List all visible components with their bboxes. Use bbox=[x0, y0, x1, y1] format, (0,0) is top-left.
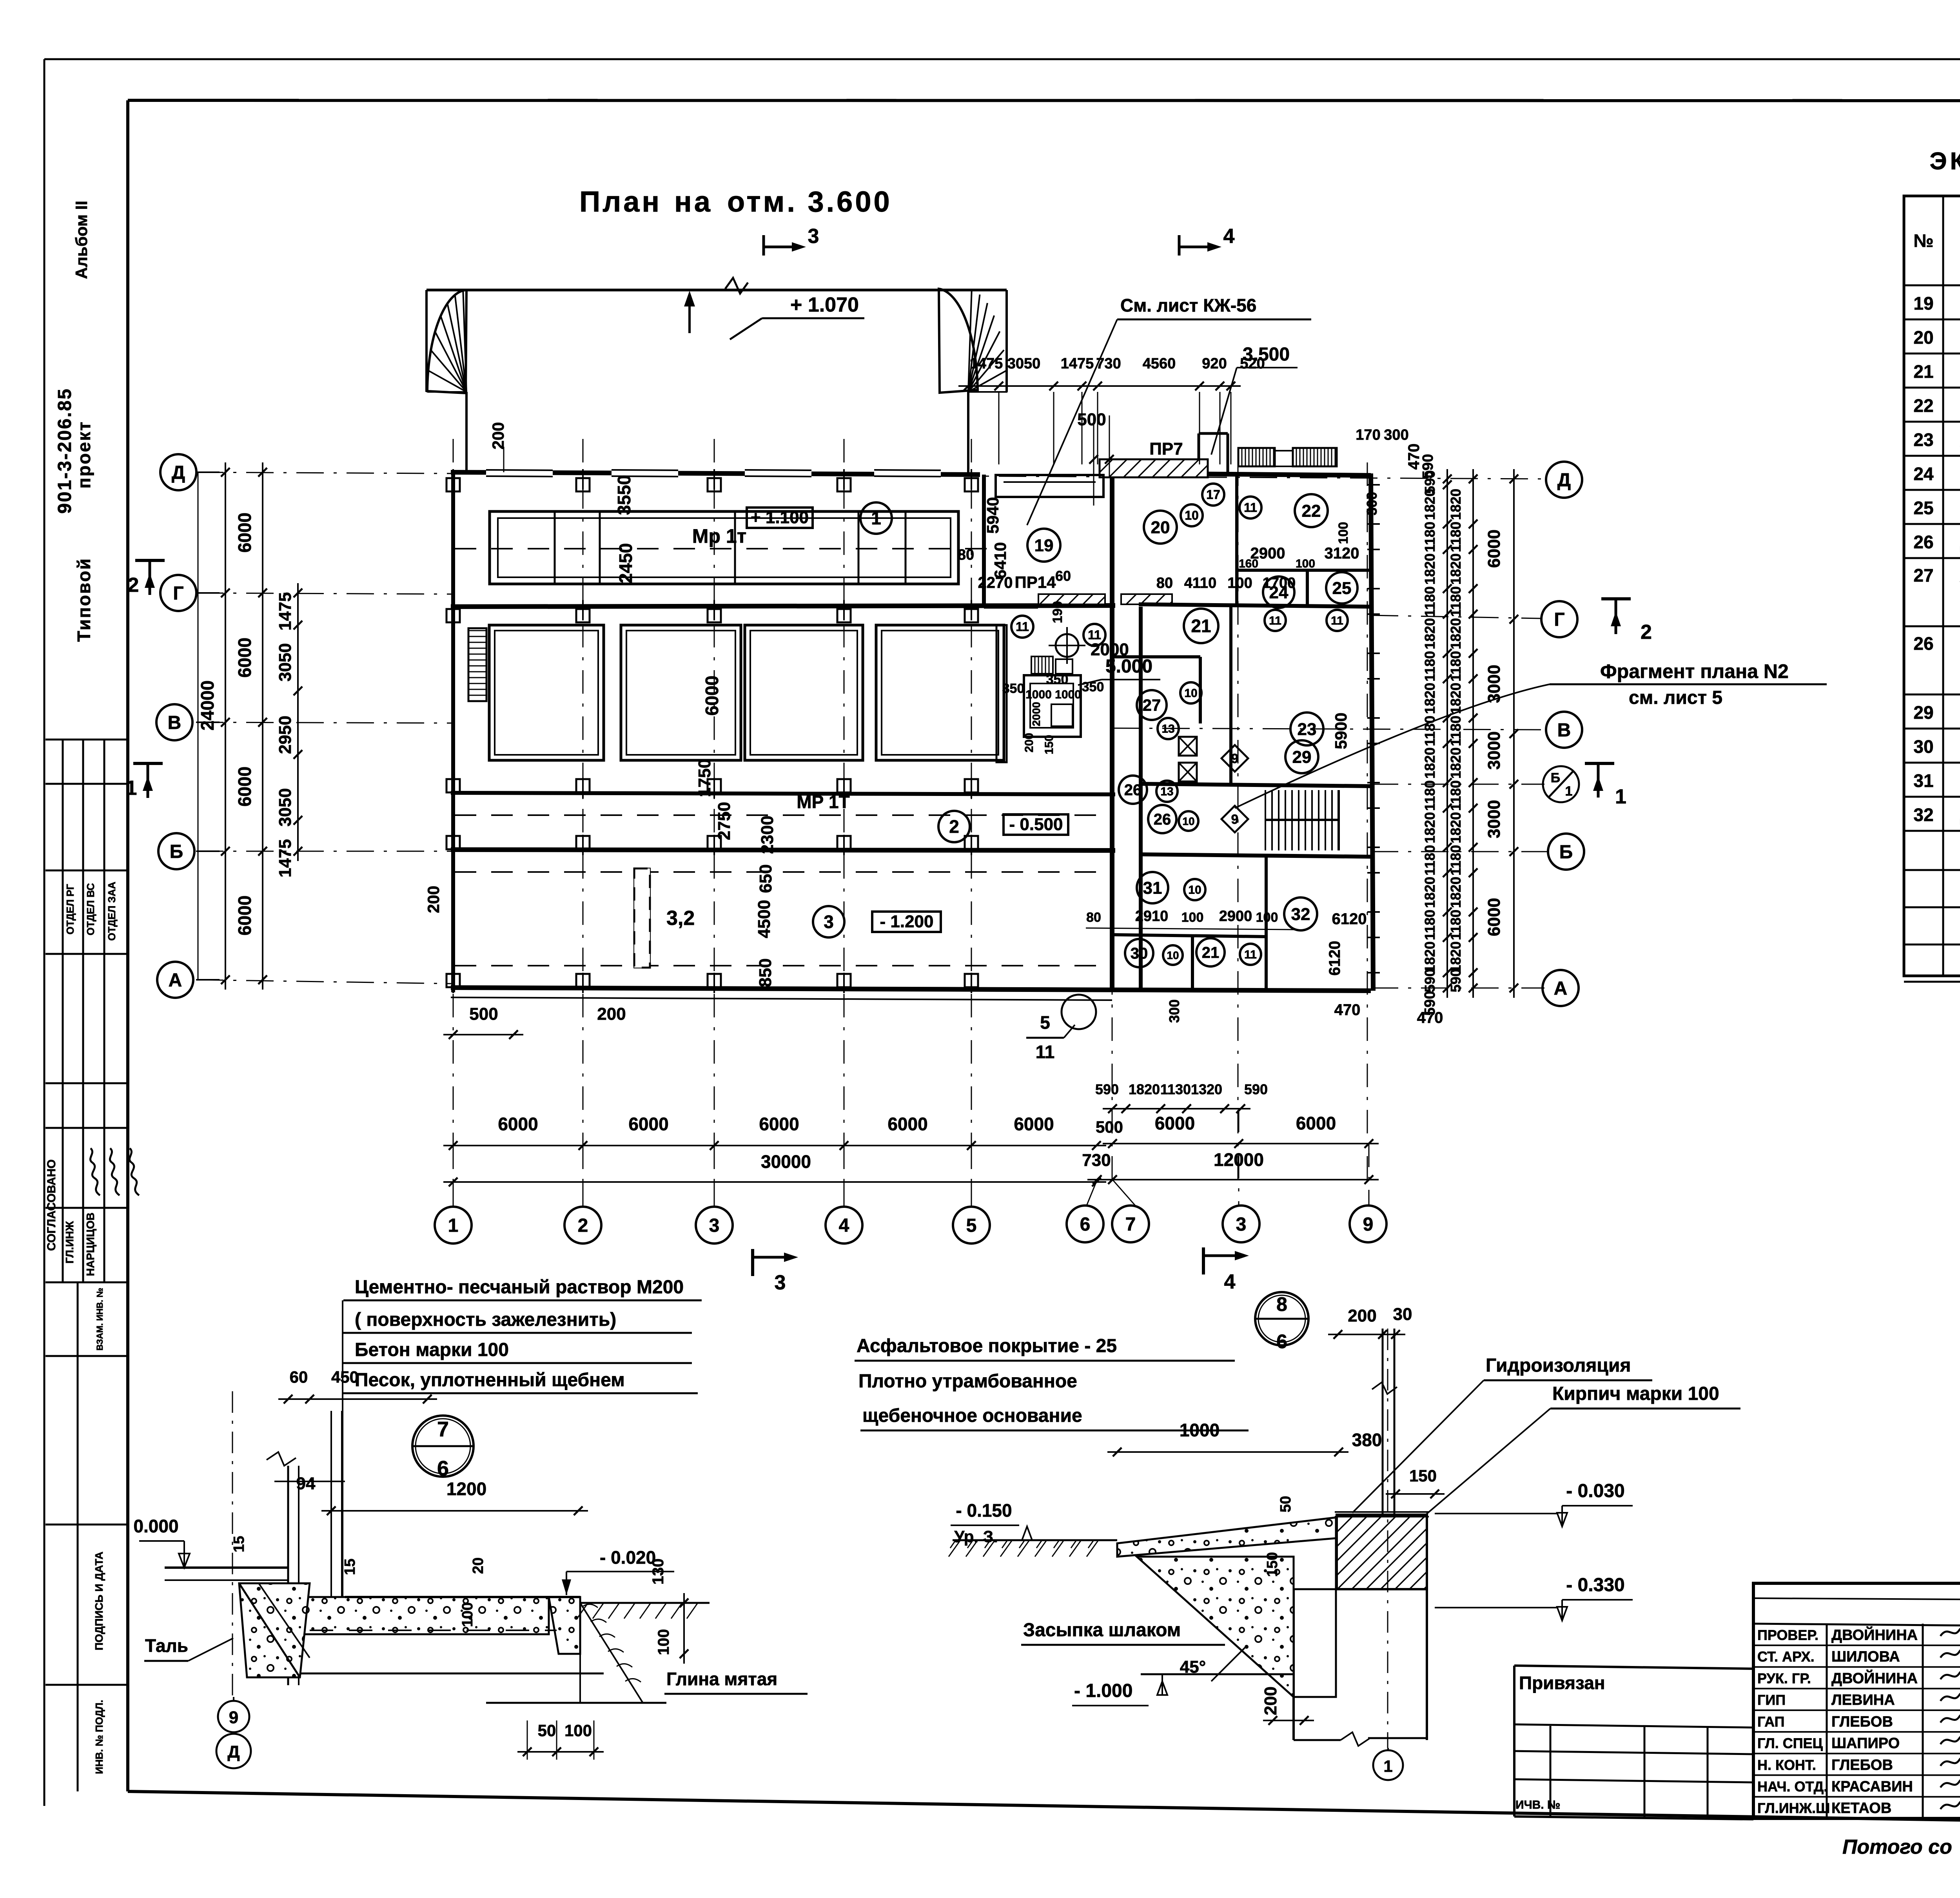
svg-text:1475: 1475 bbox=[1061, 355, 1094, 372]
svg-text:80: 80 bbox=[958, 547, 974, 563]
svg-text:24000: 24000 bbox=[197, 680, 218, 731]
svg-text:2300: 2300 bbox=[758, 816, 777, 854]
svg-text:160: 160 bbox=[1239, 557, 1258, 570]
svg-text:1180: 1180 bbox=[1422, 845, 1438, 876]
svg-text:1180: 1180 bbox=[1448, 910, 1464, 940]
equipment square bbox=[1024, 675, 1081, 737]
svg-text:1: 1 bbox=[1565, 784, 1573, 799]
svg-text:350: 350 bbox=[1046, 672, 1069, 687]
svg-text:11: 11 bbox=[1331, 615, 1343, 627]
svg-text:6000: 6000 bbox=[1155, 1113, 1195, 1133]
svg-text:20: 20 bbox=[1151, 518, 1170, 537]
detail 7 slab with concrete bbox=[298, 1597, 549, 1634]
equipment comb bbox=[1031, 656, 1053, 674]
explication table frame bbox=[1904, 196, 1960, 976]
svg-text:9: 9 bbox=[1231, 751, 1239, 766]
wall row B hall bbox=[451, 850, 1115, 850]
svg-text:520: 520 bbox=[1240, 355, 1265, 372]
svg-text:ЛЕВИНА: ЛЕВИНА bbox=[1831, 1692, 1895, 1708]
svg-text:2: 2 bbox=[128, 574, 139, 596]
svg-text:- 0.500: - 0.500 bbox=[1009, 815, 1063, 834]
svg-text:920: 920 bbox=[1202, 355, 1227, 372]
duct along hall right bbox=[996, 625, 1007, 762]
upper monorail equipment band bbox=[490, 511, 958, 584]
svg-text:ВЗАМ. ИНВ. №: ВЗАМ. ИНВ. № bbox=[95, 1288, 105, 1351]
svg-text:1820: 1820 bbox=[1422, 489, 1438, 520]
svg-text:5.000: 5.000 bbox=[1105, 656, 1152, 677]
svg-text:1180: 1180 bbox=[1448, 522, 1464, 552]
corridor south wall annex right part bbox=[1139, 604, 1371, 607]
svg-text:7: 7 bbox=[1125, 1214, 1136, 1235]
wall between 24 25 bbox=[1306, 570, 1309, 607]
bottom axis circles 1-5 bbox=[435, 1207, 472, 1244]
svg-text:6: 6 bbox=[1276, 1331, 1287, 1352]
svg-text:30: 30 bbox=[1913, 736, 1933, 757]
brick pier hatched bbox=[1337, 1515, 1427, 1589]
svg-text:ГЛЕБОВ: ГЛЕБОВ bbox=[1831, 1713, 1893, 1730]
svg-text:20: 20 bbox=[470, 1557, 486, 1574]
svg-text:500: 500 bbox=[469, 1004, 498, 1024]
detail 7 wall verticals bbox=[330, 1411, 332, 1597]
svg-text:3: 3 bbox=[808, 225, 819, 248]
bottom axis circles 6-9 bbox=[1067, 1206, 1103, 1242]
elevation box -1.200 bbox=[872, 912, 941, 932]
svg-text:НАРЦИЦОВ: НАРЦИЦОВ bbox=[84, 1213, 96, 1276]
room 27 box bbox=[1114, 655, 1200, 658]
svg-text:Г: Г bbox=[173, 583, 183, 604]
monorail dashed line lower МР 1Т bbox=[455, 814, 1109, 816]
svg-text:80: 80 bbox=[1086, 910, 1101, 925]
svg-text:ГЛ. СПЕЦ: ГЛ. СПЕЦ bbox=[1757, 1735, 1823, 1751]
svg-text:300: 300 bbox=[1166, 999, 1182, 1023]
svg-text:ЭКСПЛИКАЦИЯ ПОМЕЩЕНИЙ: ЭКСПЛИКАЦИЯ ПОМЕЩЕНИЙ bbox=[1929, 147, 1960, 175]
svg-text:КЕТАОВ: КЕТАОВ bbox=[1831, 1800, 1891, 1816]
detail 7 floor slab lines bbox=[165, 1566, 288, 1569]
svg-text:1180: 1180 bbox=[1448, 780, 1464, 811]
svg-text:2: 2 bbox=[1641, 621, 1652, 644]
room circle 1 bbox=[860, 502, 892, 534]
svg-text:200: 200 bbox=[1261, 1686, 1280, 1715]
svg-text:Бетон марки 100: Бетон марки 100 bbox=[355, 1340, 509, 1360]
svg-text:Д: Д bbox=[172, 462, 185, 483]
svg-text:4110: 4110 bbox=[1184, 575, 1216, 591]
svg-text:22: 22 bbox=[1302, 501, 1321, 520]
svg-text:11: 11 bbox=[1088, 628, 1101, 642]
svg-text:31: 31 bbox=[1913, 770, 1933, 791]
svg-text:Глина мятая: Глина мятая bbox=[666, 1669, 777, 1689]
svg-text:3: 3 bbox=[775, 1271, 786, 1294]
svg-text:590: 590 bbox=[1095, 1081, 1119, 1097]
svg-text:4: 4 bbox=[1223, 225, 1235, 248]
section marker 2 left bbox=[135, 559, 165, 562]
svg-text:3,2: 3,2 bbox=[666, 907, 695, 930]
svg-text:3050: 3050 bbox=[276, 643, 295, 682]
wall above stairs bbox=[1141, 784, 1371, 786]
four tank rooms bbox=[489, 625, 604, 760]
svg-text:26: 26 bbox=[1913, 633, 1933, 654]
svg-text:РУК. ГР.: РУК. ГР. bbox=[1757, 1670, 1811, 1686]
svg-text:1000: 1000 bbox=[1180, 1420, 1220, 1440]
svg-text:590: 590 bbox=[1422, 969, 1438, 992]
section marker 2 right bbox=[1601, 597, 1631, 600]
svg-text:590: 590 bbox=[1244, 1081, 1268, 1097]
svg-text:ПР14: ПР14 bbox=[1015, 573, 1056, 591]
svg-text:17: 17 bbox=[1206, 488, 1220, 502]
svg-text:27: 27 bbox=[1143, 696, 1161, 714]
svg-text:Д: Д bbox=[1557, 470, 1571, 491]
svg-text:9: 9 bbox=[229, 1708, 238, 1727]
left strip lower cells bbox=[45, 1355, 128, 1357]
room 19 left wall bbox=[982, 475, 986, 607]
shlak fill triangle bbox=[1137, 1557, 1294, 1697]
svg-text:13: 13 bbox=[1160, 785, 1173, 798]
svg-text:Фрагмент плана N2: Фрагмент плана N2 bbox=[1600, 660, 1789, 682]
room circles annex bbox=[1027, 529, 1060, 562]
svg-text:150: 150 bbox=[1043, 735, 1056, 754]
svg-text:23: 23 bbox=[1913, 430, 1933, 450]
svg-text:23: 23 bbox=[1298, 720, 1317, 739]
svg-text:150: 150 bbox=[1264, 1552, 1281, 1577]
svg-text:4560: 4560 bbox=[1143, 355, 1176, 372]
detail 7 leader vertical bbox=[342, 1300, 343, 1601]
svg-text:19: 19 bbox=[1913, 293, 1933, 314]
porch recess bbox=[996, 475, 1103, 497]
detail 7 break mark 94 bbox=[267, 1452, 296, 1466]
detail 7 lower ground line bbox=[300, 1673, 604, 1675]
svg-text:3000: 3000 bbox=[1485, 665, 1504, 703]
canopy left scroll bbox=[427, 290, 466, 393]
svg-text:Привязан: Привязан bbox=[1519, 1673, 1605, 1693]
tal axis line bbox=[232, 1391, 233, 1697]
svg-text:11: 11 bbox=[1036, 1042, 1055, 1062]
svg-text:1180: 1180 bbox=[1448, 716, 1464, 746]
detail 8 wall verticals bbox=[1382, 1329, 1384, 1514]
detail 7 top slab line right bbox=[345, 1596, 580, 1598]
svg-text:1180: 1180 bbox=[1422, 522, 1438, 552]
svg-text:6000: 6000 bbox=[234, 513, 255, 553]
grid column centerlines axes 1-5 bbox=[453, 439, 454, 1200]
svg-text:5900: 5900 bbox=[1332, 712, 1350, 749]
svg-text:30: 30 bbox=[1131, 945, 1148, 962]
svg-text:26: 26 bbox=[1124, 781, 1142, 799]
svg-text:9: 9 bbox=[1231, 812, 1239, 827]
sheet outer border top bbox=[44, 58, 1960, 60]
personnel table bbox=[1826, 1624, 1828, 1818]
svg-text:1750: 1750 bbox=[695, 759, 714, 797]
svg-text:ШАПИРО: ШАПИРО bbox=[1831, 1735, 1900, 1752]
detail 7 axis circles 9 D bbox=[218, 1701, 249, 1732]
svg-text:10: 10 bbox=[1184, 687, 1197, 700]
svg-text:ГЛ.ИНЖ.Ш: ГЛ.ИНЖ.Ш bbox=[1757, 1800, 1830, 1816]
wall row A (bottom wall) bbox=[451, 988, 1371, 991]
svg-text:6000: 6000 bbox=[887, 1114, 927, 1134]
svg-text:11: 11 bbox=[1244, 948, 1257, 961]
svg-text:2: 2 bbox=[949, 816, 959, 837]
svg-text:проект: проект bbox=[74, 421, 94, 488]
detail 8 circle 8/6 bbox=[1255, 1292, 1308, 1345]
svg-text:отм. 3.600: отм. 3.600 bbox=[727, 185, 892, 218]
svg-text:29: 29 bbox=[1913, 702, 1933, 723]
svg-text:на: на bbox=[674, 185, 713, 218]
svg-text:1180: 1180 bbox=[1448, 586, 1464, 617]
svg-text:380: 380 bbox=[1352, 1430, 1382, 1450]
svg-text:19: 19 bbox=[1034, 536, 1054, 555]
svg-text:21: 21 bbox=[1191, 616, 1211, 636]
svg-text:Б: Б bbox=[170, 841, 183, 862]
svg-text:1820: 1820 bbox=[1448, 618, 1464, 649]
svg-text:8: 8 bbox=[1276, 1293, 1287, 1315]
annex right wall bbox=[1371, 473, 1373, 991]
svg-text:60: 60 bbox=[290, 1368, 308, 1386]
svg-text:100: 100 bbox=[1181, 910, 1204, 925]
svg-text:901-3-206.85: 901-3-206.85 bbox=[54, 388, 75, 514]
svg-text:1475: 1475 bbox=[276, 592, 295, 631]
svg-text:21: 21 bbox=[1913, 361, 1933, 382]
x-box vents bbox=[1179, 737, 1197, 756]
svg-text:2450: 2450 bbox=[615, 543, 636, 583]
wall 21/32 divider bbox=[1265, 857, 1268, 991]
wall row V hall bbox=[451, 793, 1115, 794]
svg-text:3: 3 bbox=[709, 1215, 720, 1236]
svg-text:ГИП: ГИП bbox=[1757, 1692, 1786, 1708]
svg-text:10: 10 bbox=[1167, 949, 1179, 961]
bottom dim chain hall 6000s bbox=[443, 1145, 1106, 1146]
svg-text:470: 470 bbox=[1334, 1001, 1361, 1019]
left axis circles bbox=[160, 454, 196, 490]
svg-text:ОТДЕЛ ЗАА: ОТДЕЛ ЗАА bbox=[106, 881, 118, 941]
svg-text:ГЛ.ИНЖ: ГЛ.ИНЖ bbox=[64, 1221, 76, 1264]
svg-text:6000: 6000 bbox=[234, 638, 255, 678]
svg-text:Г: Г bbox=[1554, 609, 1564, 630]
svg-text:29: 29 bbox=[1292, 747, 1312, 767]
bottom dim 30000 bbox=[443, 1181, 1106, 1183]
svg-text:100: 100 bbox=[1256, 910, 1278, 925]
svg-text:Асфальтовое покрытие - 25: Асфальтовое покрытие - 25 bbox=[857, 1336, 1117, 1356]
svg-text:- 1.000: - 1.000 bbox=[1074, 1680, 1132, 1701]
soil hatch right of slab bbox=[580, 1602, 710, 1604]
section marker 3 bottom bbox=[751, 1249, 754, 1276]
left dim chain 6000s bbox=[225, 462, 226, 990]
detail 8 circle 1 bbox=[1373, 1750, 1403, 1780]
inner frame bottom bbox=[128, 1791, 1960, 1829]
svg-text:1820: 1820 bbox=[1422, 941, 1438, 973]
svg-text:3050: 3050 bbox=[276, 788, 295, 827]
axis row B centerline bbox=[196, 851, 455, 852]
svg-text:1820: 1820 bbox=[1129, 1081, 1160, 1097]
svg-text:Потого со: Потого со bbox=[1842, 1836, 1952, 1858]
svg-text:15: 15 bbox=[231, 1536, 247, 1552]
svg-text:Гидроизоляция: Гидроизоляция bbox=[1486, 1355, 1631, 1376]
wall row G hall bbox=[451, 605, 1115, 607]
svg-text:2750: 2750 bbox=[715, 802, 734, 840]
svg-text:ОТДЕЛ ВС: ОТДЕЛ ВС bbox=[85, 883, 96, 935]
svg-text:1180: 1180 bbox=[1422, 910, 1438, 940]
svg-text:50: 50 bbox=[538, 1721, 556, 1740]
foundation below bbox=[1292, 1589, 1295, 1740]
svg-text:А: А bbox=[1554, 978, 1568, 999]
svg-text:1320: 1320 bbox=[1191, 1081, 1222, 1097]
svg-text:200: 200 bbox=[597, 1004, 626, 1024]
svg-text:Засыпка шлаком: Засыпка шлаком bbox=[1023, 1620, 1181, 1641]
svg-text:730: 730 bbox=[1082, 1151, 1111, 1170]
svg-text:3050: 3050 bbox=[1007, 355, 1041, 372]
svg-text:щебеночное основание: щебеночное основание bbox=[862, 1405, 1082, 1426]
svg-text:Типовой: Типовой bbox=[74, 557, 94, 642]
svg-text:11: 11 bbox=[1269, 615, 1281, 627]
svg-text:5940: 5940 bbox=[984, 497, 1002, 533]
svg-text:25: 25 bbox=[1913, 498, 1933, 518]
stairwell bbox=[1265, 790, 1266, 850]
axis row V centerline bbox=[196, 722, 455, 723]
monorail centerline dashed bbox=[455, 548, 988, 549]
canopy up arrow bbox=[688, 296, 691, 333]
svg-text:1180: 1180 bbox=[1448, 845, 1464, 876]
svg-text:1200: 1200 bbox=[446, 1479, 486, 1499]
svg-text:ПРОВЕР.: ПРОВЕР. bbox=[1757, 1627, 1818, 1643]
axis row G centerline bbox=[196, 593, 455, 594]
svg-text:ГЛЕБОВ: ГЛЕБОВ bbox=[1831, 1757, 1893, 1773]
PR14 hatched lintel bbox=[1038, 594, 1105, 604]
right dim chain windows outer bbox=[1446, 469, 1448, 998]
annex top wall bbox=[1139, 473, 1371, 475]
svg-text:11: 11 bbox=[1016, 620, 1029, 634]
svg-text:32: 32 bbox=[1291, 905, 1310, 924]
svg-text:100: 100 bbox=[459, 1602, 476, 1627]
svg-text:1820: 1820 bbox=[1422, 683, 1438, 714]
foundation axis dashdot bbox=[1387, 1329, 1388, 1748]
svg-text:32: 32 bbox=[1913, 805, 1933, 825]
svg-text:А: А bbox=[169, 970, 182, 991]
bottom dim chain annex 6000s bbox=[1103, 1143, 1379, 1144]
svg-text:1820: 1820 bbox=[1448, 747, 1464, 779]
svg-text:Альбом II: Альбом II bbox=[72, 201, 91, 279]
dashed recess 3,2 bbox=[634, 868, 650, 968]
svg-text:1820: 1820 bbox=[1448, 553, 1464, 585]
svg-text:ПОДПИСЬ И ДАТА: ПОДПИСЬ И ДАТА bbox=[93, 1552, 105, 1650]
left strip signatures bbox=[90, 1148, 139, 1195]
svg-text:1180: 1180 bbox=[1448, 651, 1464, 682]
room circle 3 bbox=[813, 906, 844, 937]
wall below stairs B axis bbox=[1141, 854, 1371, 857]
svg-text:200: 200 bbox=[489, 422, 507, 450]
right dim chain windows inner bbox=[1472, 469, 1474, 998]
svg-text:26: 26 bbox=[1154, 811, 1171, 828]
svg-text:50: 50 bbox=[1278, 1496, 1294, 1512]
canopy break mark bbox=[725, 278, 748, 294]
equipment crosshair bbox=[1056, 634, 1078, 657]
svg-text:350: 350 bbox=[1002, 681, 1025, 696]
svg-text:170: 170 bbox=[1356, 427, 1380, 443]
room 20/22 divider wall bbox=[1235, 475, 1238, 607]
svg-text:4: 4 bbox=[839, 1215, 849, 1236]
svg-text:450: 450 bbox=[331, 1368, 359, 1386]
svg-text:7: 7 bbox=[437, 1418, 449, 1441]
detail 7 circle 7/6 bbox=[412, 1416, 474, 1477]
svg-text:Н. КОНТ.: Н. КОНТ. bbox=[1757, 1757, 1816, 1773]
svg-text:Б: Б bbox=[1551, 770, 1560, 785]
svg-text:НАЧ. ОТД.: НАЧ. ОТД. bbox=[1757, 1778, 1828, 1795]
grid column centerlines axes 7-9 bbox=[1112, 462, 1113, 1180]
svg-text:1000 1000: 1000 1000 bbox=[1025, 688, 1081, 701]
D wall window slots bbox=[486, 469, 553, 477]
corridor wall G annex bbox=[984, 605, 1038, 609]
svg-text:30000: 30000 bbox=[761, 1151, 811, 1172]
svg-text:Плотно утрамбованное: Плотно утрамбованное bbox=[858, 1371, 1077, 1392]
left strip agreement table bbox=[45, 739, 128, 741]
section marker 4 top bbox=[1178, 235, 1181, 256]
svg-text:27: 27 bbox=[1913, 565, 1933, 586]
svg-text:300: 300 bbox=[1364, 492, 1380, 515]
svg-text:Таль: Таль bbox=[145, 1635, 188, 1656]
svg-text:- 0.330: - 0.330 bbox=[1566, 1575, 1624, 1595]
svg-text:1: 1 bbox=[1615, 785, 1626, 808]
svg-text:- 0.150: - 0.150 bbox=[956, 1500, 1012, 1521]
svg-text:6000: 6000 bbox=[1485, 529, 1504, 568]
svg-text:Цементно- песчаный раствор М2: Цементно- песчаный раствор М200 bbox=[355, 1277, 684, 1298]
svg-text:6120: 6120 bbox=[1332, 910, 1367, 928]
svg-text:ПР7: ПР7 bbox=[1149, 439, 1183, 459]
section marker 1 left bbox=[133, 762, 163, 765]
privyazan box bbox=[1514, 1666, 1753, 1669]
svg-text:10: 10 bbox=[1185, 508, 1199, 522]
svg-text:5: 5 bbox=[966, 1215, 977, 1236]
svg-text:6120: 6120 bbox=[1326, 941, 1343, 976]
svg-text:6000: 6000 bbox=[628, 1114, 668, 1134]
hall right wall axis 6-7 bbox=[1110, 472, 1114, 991]
svg-text:1: 1 bbox=[126, 777, 137, 799]
svg-text:См. лист КЖ-56: См. лист КЖ-56 bbox=[1120, 295, 1256, 315]
svg-text:590: 590 bbox=[1448, 969, 1464, 992]
svg-text:- 0.020: - 0.020 bbox=[600, 1547, 656, 1568]
column marks on walls bbox=[446, 478, 460, 491]
svg-text:2910: 2910 bbox=[1135, 908, 1169, 925]
svg-text:1820: 1820 bbox=[1422, 553, 1438, 585]
wall 30/21 divider bbox=[1191, 937, 1194, 991]
corridor east wall bbox=[1139, 607, 1143, 991]
svg-text:( поверхность зажелезнить): ( поверхность зажелезнить) bbox=[355, 1309, 616, 1330]
detail marker 5/11 bbox=[1062, 995, 1096, 1029]
inner frame top bbox=[128, 100, 1960, 101]
svg-text:ОТДЕЛ РГ: ОТДЕЛ РГ bbox=[64, 884, 76, 934]
svg-text:6: 6 bbox=[1080, 1214, 1091, 1235]
svg-text:26: 26 bbox=[1913, 532, 1933, 552]
svg-text:15: 15 bbox=[342, 1559, 358, 1575]
svg-text:2900: 2900 bbox=[1219, 908, 1252, 925]
svg-text:1180: 1180 bbox=[1422, 651, 1438, 682]
dashed lines lower hall bbox=[455, 871, 1109, 873]
svg-text:6000: 6000 bbox=[702, 676, 722, 716]
sheet outer border left bbox=[44, 59, 45, 1806]
svg-text:6000: 6000 bbox=[1296, 1113, 1336, 1133]
svg-text:1820: 1820 bbox=[1422, 812, 1438, 843]
svg-text:4: 4 bbox=[1224, 1271, 1236, 1293]
svg-text:190: 190 bbox=[1050, 601, 1065, 624]
svg-text:+ 1.070: + 1.070 bbox=[790, 294, 859, 316]
diamond markers 9 bbox=[1221, 745, 1248, 772]
svg-text:ДВОЙНИНА: ДВОЙНИНА bbox=[1831, 1669, 1918, 1687]
svg-text:6410: 6410 bbox=[991, 542, 1009, 578]
svg-text:1820: 1820 bbox=[1448, 812, 1464, 843]
svg-text:1475: 1475 bbox=[970, 355, 1003, 372]
svg-text:1820: 1820 bbox=[1422, 747, 1438, 779]
svg-text:1820: 1820 bbox=[1448, 683, 1464, 714]
svg-text:Д: Д bbox=[227, 1742, 240, 1762]
canopy outline bbox=[426, 289, 1007, 292]
svg-text:100: 100 bbox=[1296, 557, 1315, 570]
svg-text:- 0.030: - 0.030 bbox=[1566, 1481, 1624, 1501]
section marker 1 right bbox=[1585, 762, 1614, 765]
right wall window sills bbox=[1367, 484, 1380, 486]
